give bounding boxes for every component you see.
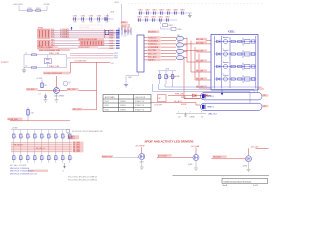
- net label racetrack1: [181, 97, 186, 99]
- net label bus pin: [109, 44, 119, 47]
- svg-text:R: R: [161, 77, 163, 79]
- wire fanout: [187, 38, 211, 63]
- svg-text:1 2 3 4 5: 1 2 3 4 5: [121, 35, 127, 37]
- wire connector pin: [125, 28, 126, 35]
- svg-text:PCIRST#: PCIRST#: [1, 62, 9, 64]
- wire: [161, 46, 176, 48]
- capacitor C8E1: [138, 10, 143, 15]
- net label +3VS_AUX: [13, 3, 24, 6]
- net label XTAL top1: [39, 46, 58, 49]
- svg-text:SPKR2: SPKR2: [181, 104, 187, 106]
- svg-text:KBC_CS#: KBC_CS#: [148, 53, 158, 55]
- ground drv1: [140, 160, 144, 170]
- svg-text:R: R: [15, 136, 17, 138]
- net label KBC_CS#: [148, 52, 161, 55]
- resistor pack RP7E1: [121, 24, 130, 28]
- resistor R9E1: [158, 71, 163, 84]
- svg-text:C7E3: C7E3: [89, 16, 94, 18]
- capacitor C6E2: [25, 66, 37, 69]
- capacitor C8E7: [180, 10, 185, 15]
- net label CLK14M out: [43, 72, 70, 75]
- wire: [161, 56, 176, 58]
- wire column 8: [62, 130, 64, 163]
- net label +5V trio: [158, 68, 176, 71]
- wire: [103, 29, 105, 38]
- wire led chain: [168, 94, 211, 96]
- resistor R9E3: [171, 71, 176, 84]
- svg-text:KBC_CLK: KBC_CLK: [67, 89, 76, 91]
- resistor R16: [48, 134, 53, 138]
- svg-text:+3VSB: +3VSB: [43, 4, 50, 6]
- wire connector pin: [128, 28, 129, 35]
- wire kbd data bus: [51, 36, 116, 39]
- LED CR2: [204, 94, 208, 97]
- wire: [161, 37, 176, 39]
- resistor pack RP7E2: [124, 30, 131, 33]
- LED CR11: [13, 156, 18, 160]
- net label fan bottom: [166, 75, 180, 78]
- net label +3VS: [43, 4, 50, 6]
- net label xtal1: [49, 52, 59, 55]
- net label Q ref: [54, 96, 65, 98]
- note line 2: [10, 168, 30, 170]
- capacitor C6E1: [25, 53, 37, 56]
- net label +3VS small: [121, 21, 128, 24]
- LED CR13: [27, 156, 32, 160]
- net label keb: [196, 49, 207, 52]
- net label bus pin: [109, 35, 119, 38]
- wire 5V standby: [10, 120, 70, 122]
- net label XTAL top2: [39, 49, 70, 52]
- svg-text:C8E6: C8E6: [173, 10, 178, 12]
- svg-text:C9E1: C9E1: [137, 17, 142, 19]
- wire drv2 drain: [195, 148, 197, 155]
- wire column 7: [55, 130, 57, 163]
- connector J6E1: [137, 35, 144, 72]
- svg-text:KB_LED5: KB_LED5: [73, 151, 80, 153]
- capacitor C9E5: [165, 17, 170, 22]
- transistor Q7E2: [193, 155, 199, 161]
- net label bus pin: [109, 29, 119, 32]
- wire: [184, 57, 187, 59]
- wire keb entry top: [206, 39, 212, 41]
- net label bus row: [73, 147, 84, 150]
- capacitor C8E6: [173, 10, 178, 15]
- ground array: [63, 163, 66, 173]
- wire column 6: [48, 130, 50, 163]
- svg-text:LD: LD: [178, 116, 181, 118]
- wire cap rail B: [137, 19, 177, 21]
- svg-text:D: D: [43, 158, 45, 160]
- net label Q7E1: [140, 161, 144, 163]
- net label bus pin: [109, 42, 119, 45]
- net label drv1 gate: [102, 155, 114, 158]
- power label +3.3VS: [36, 78, 43, 88]
- resistor R8E1: [163, 24, 174, 27]
- svg-text:C1: C1: [25, 53, 27, 55]
- capacitor C9E4: [158, 17, 163, 22]
- net label drv2 top: [191, 145, 200, 148]
- wire kbd data bus: [51, 32, 116, 35]
- transistor Q6E2: [63, 81, 71, 86]
- svg-text:NO STUFF: NO STUFF: [81, 27, 89, 29]
- net label below racetrack: [208, 114, 218, 116]
- svg-text:XTAL2_14M: XTAL2_14M: [49, 65, 59, 68]
- svg-text:+3VS_AUX: +3VS_AUX: [13, 3, 24, 6]
- ferrite bead FB6E2: [176, 41, 184, 47]
- svg-text:S0/S1: S0/S1: [105, 105, 109, 107]
- net label H_MSCLK: [148, 43, 161, 46]
- wire drv3 gate: [212, 158, 246, 160]
- net label KBRST#: [148, 59, 161, 62]
- svg-text:KB_LED: KB_LED: [196, 86, 204, 88]
- svg-text:S0/S1: S0/S1: [105, 109, 109, 111]
- wire connector ground: [126, 72, 139, 84]
- resistor pack RP6E1: [38, 28, 51, 39]
- net label xtal2: [49, 65, 59, 68]
- net label bus pin: [109, 33, 119, 36]
- resistor R14: [34, 134, 39, 138]
- connector pin numbers: [121, 35, 127, 37]
- net label H_KBDATA: [148, 39, 161, 42]
- net label racetrack2: [181, 104, 187, 106]
- net label clock left: [26, 88, 38, 91]
- wire: [109, 32, 119, 34]
- svg-text:KD4: KD4: [51, 37, 54, 39]
- wire column 2: [20, 130, 22, 163]
- title block text box: [222, 178, 268, 183]
- svg-text:NO STUFF OPTION KEYBOARD LED: NO STUFF OPTION KEYBOARD LED: [72, 130, 104, 133]
- module KEB1 internal rails: [215, 36, 256, 89]
- wire spkr 4: [172, 84, 174, 87]
- ground connector: [124, 84, 128, 87]
- wire: [161, 40, 176, 42]
- resistor R3E1: [28, 8, 33, 12]
- svg-text:C9E3: C9E3: [151, 17, 156, 19]
- resistor R11: [13, 134, 18, 138]
- svg-text:C8E3: C8E3: [152, 10, 157, 12]
- wire keb right stub: [258, 87, 264, 89]
- capacitor C6E3: [39, 93, 47, 99]
- svg-text:GND: GND: [191, 117, 196, 119]
- svg-text:GREEN: GREEN: [120, 101, 127, 103]
- svg-text:8.2K: 8.2K: [31, 113, 35, 115]
- wire connector pin: [131, 28, 132, 35]
- wire aux bus: [67, 58, 118, 60]
- svg-text:R: R: [50, 136, 52, 138]
- svg-text:Rev A: Rev A: [223, 184, 228, 187]
- capacitor C8E2: [145, 10, 150, 15]
- svg-text:RP8E6 RP8E7: RP8E6 RP8E7: [79, 47, 90, 49]
- svg-text:.1UF: .1UF: [105, 22, 108, 24]
- net label PCIRST#: [1, 62, 9, 64]
- wire pin H_MSDATA: [144, 46, 148, 48]
- svg-text:C8E7: C8E7: [180, 10, 185, 12]
- svg-text:R: R: [64, 136, 66, 138]
- svg-text:+3VS: +3VS: [110, 12, 115, 14]
- resistor R19: [69, 134, 74, 138]
- note text under red box: [155, 105, 163, 107]
- resistor R7E3: [105, 30, 109, 34]
- net label CLK14M stub: [97, 62, 115, 65]
- wire CLK14M vertical: [96, 62, 98, 110]
- svg-text:KEB1: KEB1: [228, 30, 235, 34]
- title block fields: [223, 184, 258, 187]
- LED CR1: [193, 94, 197, 97]
- bus keyboard LED band bg: [11, 142, 72, 153]
- svg-text:XTAL1_14M: XTAL1_14M: [49, 52, 59, 55]
- svg-text:MNT-HOLE 1 X8000GH: MNT-HOLE 1 X8000GH: [10, 168, 30, 170]
- svg-text:D: D: [50, 158, 52, 160]
- net label clock right: [67, 88, 79, 91]
- resistor pack RP8E4: [80, 41, 104, 45]
- wire cap rail A: [138, 12, 192, 14]
- ground xtal: [22, 68, 26, 73]
- wire column 9: [69, 130, 71, 163]
- wire aux bus: [70, 53, 118, 55]
- svg-text:C7E1: C7E1: [73, 16, 78, 18]
- svg-text:C2: C2: [25, 66, 27, 68]
- ground Q6E1: [55, 94, 59, 103]
- resistor pack RP6E2: [38, 40, 51, 49]
- svg-text:RP6E1: RP6E1: [38, 28, 43, 30]
- note box: [80, 25, 102, 29]
- wire HDD activity: [151, 100, 201, 105]
- svg-text:D: D: [57, 158, 59, 160]
- svg-text:R: R: [57, 136, 59, 138]
- resistor R18: [62, 134, 67, 138]
- svg-text:D: D: [36, 158, 38, 160]
- svg-text:C9E4: C9E4: [158, 17, 163, 19]
- net label keb: [196, 38, 207, 41]
- svg-text:SPDIF_OUT: SPDIF_OUT: [102, 156, 113, 158]
- svg-text:x: x: [186, 108, 187, 110]
- LED CR18: [62, 156, 67, 160]
- capacitor C9E1: [137, 17, 142, 22]
- net label Q7E2: [188, 164, 192, 166]
- section title SPDIF: [145, 140, 194, 144]
- svg-text:KB_LED: KB_LED: [196, 70, 204, 72]
- svg-text:PWR_LED: PWR_LED: [175, 94, 184, 96]
- svg-text:H_KBCLK: H_KBCLK: [148, 37, 157, 39]
- net label H_MSDATA: [148, 46, 161, 49]
- svg-text:XXX-1 4P04 / 4PU-4P04 CG 10BP-: XXX-1 4P04 / 4PU-4P04 CG 10BP-G4: [68, 177, 97, 179]
- wire connector pin: [119, 28, 120, 35]
- svg-text:.1UF: .1UF: [81, 22, 84, 24]
- module KEB1 title: [228, 30, 235, 34]
- svg-text:KB_LED: KB_LED: [196, 39, 204, 41]
- svg-text:Q7E2: Q7E2: [188, 164, 192, 166]
- wire pin KB_PWR: [144, 49, 148, 51]
- svg-text:R: R: [29, 136, 31, 138]
- svg-text:D: D: [15, 158, 17, 160]
- wire: [184, 50, 187, 52]
- wire pin H_KBCLK: [144, 37, 148, 39]
- wire pin KBRST#: [144, 59, 148, 61]
- net label bus row: [73, 151, 84, 154]
- ground racetrack: [184, 113, 196, 119]
- svg-text:OUT: OUT: [263, 95, 267, 97]
- svg-text:FB3: FB3: [177, 48, 180, 50]
- wire: [161, 27, 172, 29]
- wire drv1 gate: [113, 157, 138, 159]
- svg-text:ACT_LED#: ACT_LED#: [158, 154, 167, 157]
- svg-text:+3VS: +3VS: [114, 2, 120, 4]
- LED CR15: [41, 156, 46, 160]
- power label +3VS mid: [110, 12, 115, 14]
- wire fanout: [191, 41, 211, 72]
- net label keb: [196, 59, 207, 62]
- wire: [184, 44, 187, 46]
- power label +3VS top: [114, 2, 122, 20]
- svg-text:D: D: [71, 158, 73, 160]
- svg-text:KB_LED: KB_LED: [196, 78, 204, 80]
- transistor Q7E3: [246, 156, 252, 162]
- net label bus row: [73, 142, 84, 145]
- net label drv1 top: [135, 146, 145, 148]
- net label drv2 gate: [158, 154, 172, 157]
- ground drv3: [247, 162, 251, 172]
- wire: [161, 53, 176, 55]
- LED CR19: [69, 156, 74, 160]
- svg-text:C7E4: C7E4: [97, 16, 102, 18]
- net label bus row: [73, 143, 84, 146]
- svg-text:KDAT: KDAT: [109, 40, 113, 43]
- svg-text:H_KBDAT4: H_KBDAT4: [60, 36, 69, 39]
- crystal Y6E1: [44, 55, 51, 68]
- svg-text:HD_LED#: HD_LED#: [213, 157, 221, 159]
- svg-text:RP8E1 RP8E2 RP8E3: RP8E1 RP8E2 RP8E3: [79, 39, 97, 41]
- wire mouse data bus: [51, 42, 116, 44]
- svg-text:KBC_CLK: KBC_CLK: [73, 109, 82, 111]
- resistor R5E1: [27, 107, 35, 121]
- svg-text:.1UF: .1UF: [73, 22, 76, 24]
- svg-text:SPDIF AND ACTIVITY LED DRIVERS: SPDIF AND ACTIVITY LED DRIVERS: [145, 140, 194, 144]
- svg-text:9 of 12: 9 of 12: [253, 185, 258, 187]
- svg-text:SPKR_1: SPKR_1: [208, 96, 215, 98]
- capacitor C7E5: [105, 16, 110, 24]
- wire drv3 drain: [248, 148, 250, 155]
- wire pin H_MSCLK: [144, 43, 148, 45]
- svg-text:.1UF: .1UF: [89, 22, 92, 24]
- resistor pack RP8E5: [78, 46, 98, 49]
- note box red: [158, 95, 167, 102]
- wire kbd data bus: [51, 30, 116, 33]
- svg-text:CLK_EN#: CLK_EN#: [27, 89, 35, 91]
- svg-text:C8E1: C8E1: [138, 10, 143, 12]
- svg-text:D: D: [22, 158, 24, 160]
- wire pin H_KBDATA: [144, 40, 148, 42]
- svg-text:KBRST#: KBRST#: [148, 60, 156, 62]
- svg-text:Q7E3: Q7E3: [243, 165, 247, 167]
- svg-text:C8E4: C8E4: [159, 10, 164, 12]
- wire kbd data bus: [51, 28, 116, 31]
- net label wire 110: [72, 108, 96, 111]
- net label drv3 top: [251, 147, 269, 149]
- speaker module SP2: [201, 103, 263, 110]
- net label keb: [196, 85, 207, 88]
- svg-text:+5VSB_KBC: +5VSB_KBC: [8, 119, 19, 121]
- net label H_KBCLK: [148, 36, 161, 39]
- capacitor C8E5: [166, 10, 171, 15]
- svg-text:USB_OC#: USB_OC#: [208, 114, 218, 116]
- capacitor C7E2: [81, 16, 86, 24]
- svg-text:C8E5: C8E5: [166, 10, 171, 12]
- net label drv3 gate: [213, 155, 227, 158]
- net connector arrow: [71, 27, 73, 31]
- resistor R9E2: [165, 71, 170, 84]
- capacitor C9E3: [151, 17, 156, 22]
- svg-text:GREEN: GREEN: [120, 105, 127, 107]
- wire direct: [184, 50, 211, 52]
- svg-text:NC: NC: [158, 98, 161, 100]
- svg-text:+3VS: +3VS: [165, 68, 170, 70]
- svg-text:CLK: CLK: [111, 63, 115, 65]
- wire spkr 1: [153, 84, 251, 103]
- wire spkr 3: [165, 84, 258, 93]
- net label bus row: [73, 145, 84, 148]
- svg-text:+5V_SPDIF: +5V_SPDIF: [135, 146, 145, 148]
- resistor R13: [27, 134, 32, 138]
- resistor R17: [55, 134, 60, 138]
- capacitor C8E4: [159, 10, 164, 15]
- svg-text:R: R: [36, 136, 38, 138]
- svg-text:STEADY ON: STEADY ON: [135, 104, 145, 107]
- svg-text:STEADY ON: STEADY ON: [135, 108, 145, 111]
- resistor pack RP8E1: [78, 37, 104, 41]
- svg-text:H_MSCLK: H_MSCLK: [148, 44, 158, 46]
- ferrite bead FB6E3: [176, 48, 184, 54]
- net label racetrack right: [262, 105, 268, 108]
- svg-text:+5V_DUAL: +5V_DUAL: [191, 145, 200, 148]
- LED CR14: [34, 156, 39, 160]
- net label CLK14M: [75, 61, 87, 63]
- svg-text:KB_LED: KB_LED: [196, 60, 204, 62]
- svg-text:NO. VAL = 1 PLACE: NO. VAL = 1 PLACE: [10, 164, 27, 167]
- svg-text:LD: LD: [201, 116, 204, 118]
- svg-text:CLK14M_KBCIN R6E2: CLK14M_KBCIN R6E2: [44, 73, 62, 75]
- wire: [184, 38, 187, 40]
- wire CLK14M: [71, 62, 97, 73]
- wire drv2 gate: [157, 157, 193, 159]
- wire: [56, 76, 58, 88]
- svg-text:R8E1: R8E1: [169, 25, 174, 27]
- capacitor C7E3: [89, 16, 94, 24]
- wire xtal top: [24, 54, 67, 56]
- note line 4: [10, 173, 37, 175]
- module KEB1 box: [211, 35, 258, 91]
- svg-text:FB4: FB4: [177, 54, 180, 56]
- resistor R12: [20, 134, 25, 138]
- svg-text:XTAL14.318MHZ: XTAL14.318MHZ: [39, 46, 54, 49]
- svg-text:GREEN: GREEN: [120, 109, 127, 111]
- wire: [161, 43, 176, 45]
- transistor Q7E1: [139, 154, 145, 160]
- svg-text:C7E5: C7E5: [105, 16, 110, 18]
- svg-text:ACPI STATE: ACPI STATE: [105, 96, 115, 99]
- svg-text:STEADY ON: STEADY ON: [135, 100, 145, 103]
- svg-text:OUT: OUT: [263, 106, 267, 108]
- net label bus row: [73, 149, 84, 152]
- key switch row 1: [215, 36, 256, 45]
- svg-text:XXX-2 4P04 / 4PU-4P04 CG 10BP-: XXX-2 4P04 / 4PU-4P04 CG 10BP-G4: [68, 180, 97, 182]
- ground keb arrow: [221, 90, 223, 95]
- net label keb: [196, 69, 207, 72]
- transistor Q6E1: [54, 88, 60, 94]
- svg-text:KBC_A20: KBC_A20: [148, 56, 156, 59]
- page border top: [128, 3, 262, 5]
- wire: [19, 6, 47, 11]
